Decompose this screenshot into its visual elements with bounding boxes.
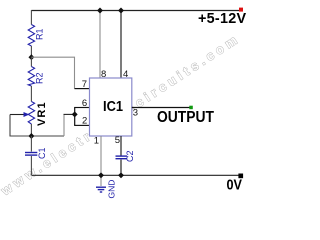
svg-text:IC1: IC1: [103, 99, 123, 115]
resistor R1: [28, 25, 34, 47]
svg-text:5: 5: [115, 135, 120, 146]
wire: +V supply rail (top): [31, 10, 241, 12]
VR1 wiper arrowhead: [24, 112, 30, 117]
ground symbol bar 1: [96, 186, 106, 188]
svg-text:C2: C2: [125, 150, 135, 162]
svg-text:2: 2: [82, 116, 87, 127]
node: 0V terminal (black): [238, 174, 243, 179]
capacitor C1 top plate: [25, 152, 37, 154]
wire: node B to C1 top: [30, 136, 32, 152]
wire: +V rail to R1 top: [30, 10, 32, 25]
resistor R2: [28, 67, 34, 87]
svg-text:3: 3: [133, 108, 138, 119]
wire: C1 bottom to 0V rail: [30, 156, 32, 175]
capacitor C1 bottom plate: [25, 154, 37, 156]
wire: riser to tie junction: [64, 113, 75, 115]
wire: C2 bottom to 0V rail: [120, 160, 122, 176]
potentiometer VR1 body: [28, 102, 34, 125]
wire: node A to R2 top: [30, 57, 32, 66]
svg-text:VR1: VR1: [36, 101, 48, 126]
svg-text:+5-12V: +5-12V: [198, 11, 246, 27]
svg-text:R1: R1: [35, 28, 45, 40]
node B: junction VR1/wiper/C1: [28, 133, 34, 139]
node: junction C2 wire / 0V rail: [118, 172, 124, 178]
node: tie junction pins 6-2: [72, 111, 78, 117]
ground symbol bar 3: [100, 191, 102, 193]
wire: +V rail to IC1 pin 4: [120, 10, 122, 78]
capacitor C2 top plate: [116, 155, 128, 157]
wire: tie between pin 6 and pin 2: [74, 108, 76, 126]
wire: R2 bottom to VR1 top: [30, 86, 32, 102]
svg-text:6: 6: [82, 98, 87, 109]
wire: pin 7 stub: [75, 88, 90, 90]
wire: wiper down and across to node B: [10, 115, 64, 137]
wire: node A to IC1 pin 7: [31, 57, 74, 88]
svg-text:0V: 0V: [227, 178, 243, 194]
wire: VR1 bottom lead to node B: [30, 124, 32, 136]
watermark www.electronicecircuits.com: [0, 30, 243, 198]
svg-text:C1: C1: [37, 147, 47, 159]
wire: IC1 pin 1 to ground: [100, 136, 102, 186]
wire: pin 2 stub: [74, 124, 89, 126]
svg-text:7: 7: [82, 79, 87, 90]
VR1 wiper arrow shaft: [10, 114, 24, 116]
svg-text:GND: GND: [107, 180, 117, 199]
IC U1: 555 timer body: [90, 78, 132, 136]
svg-text:R2: R2: [35, 72, 45, 84]
wire: 0V ground rail (bottom): [31, 174, 240, 176]
ground symbol bar 2: [98, 189, 105, 191]
node: junction pin 1 wire / 0V rail: [98, 172, 104, 178]
wire: IC1 pin 5 to C2: [120, 136, 122, 156]
node: junction pin 4 wire / +V rail: [118, 8, 124, 14]
wire: pin 3 output: [132, 107, 190, 109]
wire: node B riser toward pins 6/2: [63, 114, 65, 136]
svg-text:1: 1: [94, 136, 99, 147]
svg-text:OUTPUT: OUTPUT: [157, 109, 214, 126]
node A: junction R1/R2/pin7: [28, 54, 34, 60]
node: junction pin 8 wire / +V rail: [97, 8, 103, 14]
capacitor C2 bottom plate: [116, 158, 128, 160]
wire: R1 bottom to node A: [30, 46, 32, 57]
node: output terminal (green): [189, 106, 193, 110]
wire: pin 6 stub: [74, 107, 89, 109]
wire: +V rail to IC1 pin 8: [99, 10, 101, 78]
node: +V terminal (red): [239, 8, 243, 12]
